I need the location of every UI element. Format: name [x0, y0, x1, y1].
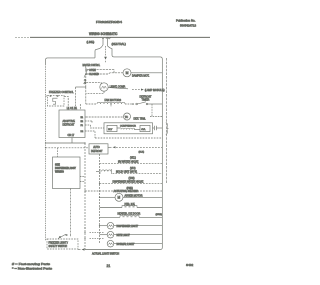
ADC top pin labels L1 C1 D1 — [67, 107, 78, 110]
label DISPENSER WATER VALVE — [113, 181, 144, 184]
label (NEUTRAL) — [112, 42, 126, 46]
wire icemaker water valve rung — [100, 163, 163, 165]
label (GRN) — [156, 214, 163, 216]
svg-text:(GRN): (GRN) — [156, 214, 163, 216]
wire hot lead from plug to left bus — [46, 45, 104, 64]
fresh food light lamp — [100, 83, 108, 91]
wire bottom rail with arrow — [78, 248, 162, 251]
wire timer motor drop — [151, 104, 153, 117]
wire dispenser water valve rung — [100, 183, 163, 185]
label (VIO) — [130, 168, 136, 170]
ground lead with arrow — [104, 46, 107, 62]
freezer light switch box — [47, 239, 78, 249]
wire dispenser box stubs — [80, 177, 85, 182]
wire light lamp bottom return — [86, 91, 104, 93]
see dispenser assy wiring box — [53, 157, 81, 189]
label DEF. TRM — [134, 118, 146, 121]
ADC bottom stub — [71, 138, 73, 144]
wire fan rung lead — [86, 103, 97, 105]
wire actuator rung — [85, 190, 162, 192]
svg-text:OPEN: OPEN — [89, 69, 96, 72]
svg-text:M: M — [118, 196, 121, 200]
title rule — [15, 36, 210, 38]
wire dispenser drop bus — [70, 189, 72, 234]
wire rail drop to dispenser box — [57, 148, 59, 157]
svg-text:(LAMP MODULE): (LAMP MODULE) — [145, 89, 165, 92]
svg-text:MOLD UNIT 185 W.: MOLD UNIT 185 W. — [116, 170, 138, 173]
wire fan rung to ADC pin D1 — [79, 104, 81, 110]
wire compressor return dashed — [95, 137, 162, 139]
footer form number — [186, 263, 194, 267]
wire closed contact rung — [87, 73, 123, 74]
label (PNK) — [127, 188, 133, 190]
svg-text:DEF. TRM.: DEF. TRM. — [134, 118, 146, 121]
auger motor M — [100, 193, 124, 201]
svg-text:DISPENSER LIGHT: DISPENSER LIGHT — [117, 225, 139, 228]
wire defrost heater rail — [46, 142, 86, 144]
wire secondary right bus (dashed) — [166, 58, 168, 183]
label COMPRESSOR — [120, 126, 136, 128]
svg-text:21: 21 — [107, 264, 111, 268]
icemaker water valve solenoid — [96, 169, 112, 174]
wire ladder left bus — [99, 154, 101, 244]
wire switch cluster descent — [85, 67, 87, 105]
wire mold unit rung — [113, 172, 163, 174]
svg-text:FREEZER LIGHT /: FREEZER LIGHT / — [49, 242, 69, 244]
svg-text:NITE LIGHT: NITE LIGHT — [117, 234, 131, 237]
start relay box — [107, 125, 117, 131]
svg-text:COMPRESSOR: COMPRESSOR — [120, 126, 136, 128]
label I/M WATER VALVE — [118, 161, 139, 164]
svg-text:D2: D2 — [81, 131, 85, 133]
wire nite light stub — [90, 231, 105, 233]
svg-text:WIRING SCHEMATIC: WIRING SCHEMATIC — [89, 31, 118, 36]
svg-text:WIRING: WIRING — [55, 171, 64, 174]
svg-text:M: M — [126, 71, 129, 75]
wire open contact to damper rung — [87, 70, 114, 73]
dispenser light lamp — [100, 222, 163, 229]
wire neutral lead from plug to right bus — [108, 46, 163, 60]
note actual light switch — [92, 253, 119, 256]
svg-text:L1 C1 D1: L1 C1 D1 — [67, 107, 78, 110]
svg-text:(NEUTRAL): (NEUTRAL) — [112, 42, 126, 46]
label MOLD UNIT 185 W — [116, 170, 138, 173]
evaporator fan motor coil — [97, 102, 111, 104]
label CB 17 — [68, 134, 75, 137]
svg-text:(YEL): (YEL) — [130, 158, 136, 160]
svg-text:FRS26ZRGB4: FRS26ZRGB4 — [96, 20, 122, 24]
compressor assembly box — [104, 123, 153, 134]
wire bus to freezer control — [46, 95, 48, 97]
nite light lamp — [100, 231, 163, 238]
label CLOSED — [89, 73, 99, 76]
power plug prongs — [102, 37, 111, 46]
compressor motor windings — [117, 128, 140, 130]
label LIGHT COMP — [110, 86, 126, 89]
wire light to lamp module — [108, 88, 144, 91]
svg-text:(TAN): (TAN) — [129, 177, 135, 180]
label (TAN) — [129, 177, 135, 180]
svg-text:NORMAL LIGHT: NORMAL LIGHT — [117, 243, 135, 246]
label MASTER CONTROL — [83, 64, 101, 67]
freezer light switch — [46, 234, 71, 241]
wire control to ADC pin C1 — [75, 87, 77, 110]
label AUGER MOTOR — [125, 195, 143, 198]
auto defrost box — [89, 144, 108, 154]
ADC pin labels right — [81, 117, 85, 133]
label HEATER ICE DOOR — [118, 212, 141, 215]
svg-text:MASTER CONTROL: MASTER CONTROL — [83, 64, 101, 67]
svg-text:DISPENSER WATER VALVE: DISPENSER WATER VALVE — [113, 181, 144, 184]
header model number — [96, 20, 122, 24]
switch contacts cold control — [84, 69, 88, 84]
label (YEL) — [130, 158, 136, 160]
svg-text:DEFROST: DEFROST — [63, 124, 75, 127]
junction dots — [45, 103, 112, 239]
wire left hot bus — [45, 64, 47, 241]
label DAMPER MOT — [132, 75, 150, 78]
svg-text:I/M WATER VALVE: I/M WATER VALVE — [118, 161, 139, 164]
svg-text:(BLK): (BLK) — [139, 151, 145, 153]
svg-text:F1: F1 — [81, 125, 84, 127]
svg-text:FAN MOTORS: FAN MOTORS — [105, 99, 122, 102]
header publication number — [176, 19, 196, 28]
label HTR ICE — [125, 203, 136, 206]
svg-text:SAFETY SWITCH: SAFETY SWITCH — [49, 245, 68, 248]
connector brace — [166, 123, 168, 135]
footer fast-moving parts — [12, 262, 51, 266]
wire auger motor to bus — [123, 196, 162, 198]
svg-text:E1: E1 — [81, 117, 84, 119]
svg-text:ACTUAL LIGHT SWITCH: ACTUAL LIGHT SWITCH — [92, 253, 119, 256]
wire auto defrost to bus with arrow — [108, 146, 162, 148]
svg-text:CLOSED: CLOSED — [89, 73, 99, 76]
label ACTUATOR ICE DISP — [114, 190, 139, 193]
svg-text:TIMER: TIMER — [142, 98, 150, 101]
label (LINE) — [87, 40, 95, 44]
label FREEZER CONTROL — [49, 91, 74, 94]
ice door solenoid — [100, 206, 163, 208]
label LAMP MODULE — [145, 89, 165, 92]
wire freezer control to ADC pin L1 — [64, 96, 68, 110]
svg-text:FREEZER CONTROL: FREEZER CONTROL — [49, 91, 74, 94]
wire light rung left — [76, 83, 102, 87]
svg-text:* = Non-Illustrated Parts: * = Non-Illustrated Parts — [12, 267, 53, 271]
freezer control dashed box — [48, 95, 65, 106]
svg-text:DEFROST: DEFROST — [91, 150, 103, 153]
svg-text:CB 17: CB 17 — [68, 134, 75, 137]
wire icemaker feed rail — [46, 147, 90, 149]
normal light lamp — [107, 240, 162, 247]
wire right neutral bus — [161, 60, 163, 248]
damper motor M — [123, 69, 131, 77]
wire compressor feed — [91, 125, 105, 128]
label NORMAL LIGHT — [117, 243, 135, 246]
svg-text:HEATER, ICE DOOR: HEATER, ICE DOOR — [118, 212, 141, 215]
defrost thermostat TC — [124, 113, 131, 120]
svg-text:RLY: RLY — [108, 129, 113, 131]
overload protector box — [140, 125, 150, 131]
footer page number — [107, 264, 111, 268]
label ADAPTIVE DEFROST — [63, 120, 76, 127]
title WIRING SCHEMATIC — [89, 31, 118, 36]
svg-text:(LINE): (LINE) — [87, 40, 95, 44]
label DEFROST TIMER — [140, 95, 152, 101]
wire dispenser bus — [84, 143, 86, 250]
svg-text:AUTO: AUTO — [93, 146, 100, 149]
ice chute heater — [100, 216, 163, 218]
ADC right pin stubs — [85, 117, 95, 138]
wire defrost thermostat to bus — [150, 116, 162, 118]
freezer control thermostat glyph — [50, 95, 58, 104]
wire normal light stub — [90, 237, 105, 239]
adaptive defrost control board box — [59, 110, 85, 138]
wire damper to neutral bus — [131, 72, 162, 74]
label FAN MOTORS — [105, 99, 122, 102]
footer non-illustrated parts — [12, 267, 53, 271]
defrost timer switch — [125, 102, 162, 105]
svg-text:TC: TC — [125, 115, 129, 119]
svg-text:OVL: OVL — [141, 129, 146, 131]
condenser fan motor coil — [111, 102, 125, 106]
svg-text:S492: S492 — [186, 263, 194, 267]
svg-text:ACTUATOR, ICE DISP.: ACTUATOR, ICE DISP. — [114, 190, 139, 193]
wire ADC E1 stub to defrost thermostat — [86, 116, 124, 118]
svg-text:E2: E2 — [81, 121, 84, 123]
label OPEN — [89, 69, 96, 72]
label NITE LIGHT — [117, 234, 131, 237]
run capacitor — [153, 126, 163, 130]
svg-text:# = Fast-moving Parts: # = Fast-moving Parts — [12, 262, 51, 266]
label DISPENSER LIGHT — [117, 225, 139, 228]
svg-text:Publication No.: Publication No. — [176, 19, 196, 23]
label (BLK) — [139, 151, 145, 153]
svg-text:DAMPER MOT.: DAMPER MOT. — [132, 75, 150, 78]
svg-text:5995424713: 5995424713 — [180, 24, 196, 28]
